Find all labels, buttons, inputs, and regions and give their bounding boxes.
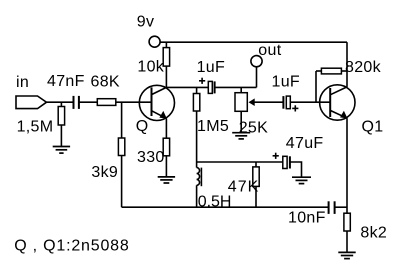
ground under 47uF [292,177,311,183]
svg-text:in: in [16,74,29,91]
ground under 8k2 [338,252,355,258]
svg-text:1uF: 1uF [197,59,225,76]
svg-text:47uF: 47uF [286,135,324,152]
node stub up to 820k [315,71,317,102]
node B stub to 3k9 [121,102,123,138]
svg-text:330: 330 [137,149,165,166]
wire input tag to node A [47,101,74,103]
pot wiper arrow [249,98,284,106]
plus sign of second 1uF [292,105,298,111]
svg-text:Q1: Q1 [362,119,384,136]
potentiometer 25K body [235,93,247,112]
svg-text:68K: 68K [91,73,120,90]
wire 47uF to ground [290,162,302,177]
svg-text:3k9: 3k9 [91,164,118,181]
node stub to pot [240,87,242,92]
svg-text:out: out [258,42,281,59]
wire mid rail y162 [197,161,283,163]
svg-text:Q , Q1:2n5088: Q , Q1:2n5088 [14,237,129,254]
transistor Q [139,85,174,120]
svg-text:47nF: 47nF [47,73,85,90]
resistor 68K [97,99,116,106]
inductor 0.5H [197,168,202,187]
wire 10nF to Q1 emitter column [335,206,347,208]
svg-text:9v: 9v [137,14,155,31]
wire 3k9 to bottom rail [121,156,123,208]
wire 68K to Q base [116,101,152,103]
wire Q emitter to 330 [165,118,167,138]
wire 330 to ground [165,156,167,177]
resistor 820k [321,68,341,74]
svg-text:1M5: 1M5 [197,118,229,135]
svg-text:1,5M: 1,5M [17,118,54,135]
wire Q collector to 10k [165,66,167,87]
plus sign of 47uF [273,153,279,159]
svg-text:820k: 820k [345,59,382,76]
resistor 47K [253,167,259,187]
capacitor C 1uF (first, polarized) [208,81,214,93]
ground under 330 [158,177,175,183]
resistor 10k [163,48,169,67]
out terminal [251,56,262,67]
svg-text:0.5H: 0.5H [198,194,232,211]
capacitor 47uF (polarized) [283,156,290,168]
wire out terminal down [256,67,258,88]
wire Q collector node [166,86,208,88]
wire 9v rail [160,41,347,43]
wire 1,5M to ground [60,125,62,146]
wire 47K to bottom rail [255,186,257,207]
node A stub to R 1,5M [60,102,62,106]
wire cap to Q1 base [290,101,330,103]
ground under pot [232,133,250,139]
9v supply terminal [149,36,160,47]
resistor 1M5 [193,94,199,112]
wire Q1 emitter down [346,118,348,213]
node stub to 1M5 [196,87,198,93]
resistor 8k2 [344,213,350,231]
wire 820k to collector [341,70,347,72]
capacitor 10nF [329,201,335,214]
transistor Q1 [320,85,355,120]
wire pot to ground [240,111,242,132]
wire cap to out node [215,86,257,88]
resistor 1,5M [58,107,64,126]
wire 10k to 9v rail [165,42,167,47]
node stub to 47K [255,162,257,167]
capacitor 1uF (second, polarized) [283,96,290,109]
resistor 3k9 [118,138,124,156]
wire 47nF to 68K [79,101,97,103]
svg-text:47K: 47K [228,179,259,196]
bottom rail wire [122,206,329,208]
svg-text:10k: 10k [137,58,164,75]
wire inductor to bottom rail [196,185,198,207]
wire to 820k [316,70,321,72]
svg-text:25K: 25K [239,120,268,137]
ground under 1,5M [53,147,70,154]
svg-text:8k2: 8k2 [360,225,387,242]
capacitor 47nF [74,96,79,109]
svg-text:1uF: 1uF [272,74,300,91]
plus sign of first 1uF [199,78,205,84]
svg-text:Q: Q [136,118,149,135]
svg-text:10nF: 10nF [288,210,326,227]
resistor 330 [163,138,169,156]
wire 1M5 to inductor [196,111,198,168]
wire 8k2 to ground [346,231,348,252]
wire rail down to Q1 collector [346,42,348,87]
input connector tag "in" [16,96,47,109]
